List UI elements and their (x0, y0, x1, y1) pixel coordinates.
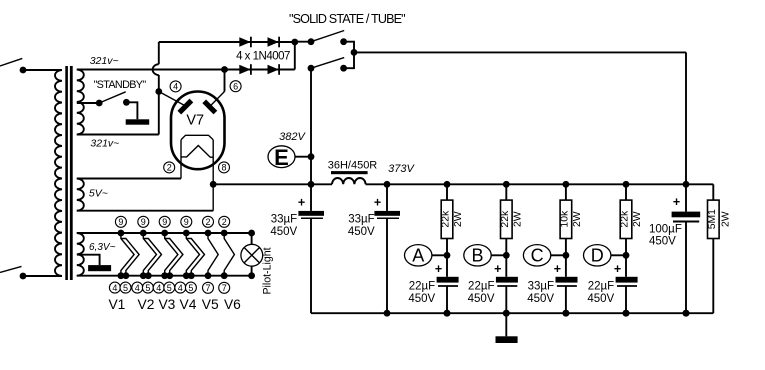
svg-text:V4: V4 (180, 297, 197, 312)
svg-text:2W: 2W (453, 211, 464, 227)
svg-text:2W: 2W (632, 211, 643, 227)
svg-text:5M1: 5M1 (707, 209, 718, 229)
svg-text:+: + (554, 262, 561, 276)
svg-text:"SOLID STATE / TUBE": "SOLID STATE / TUBE" (289, 12, 405, 26)
svg-text:7: 7 (222, 283, 227, 293)
svg-text:2: 2 (167, 163, 172, 173)
svg-text:4: 4 (178, 283, 183, 293)
svg-text:2: 2 (222, 217, 227, 227)
svg-text:4 x 1N4007: 4 x 1N4007 (236, 51, 290, 63)
svg-text:A: A (412, 246, 424, 266)
svg-text:373V: 373V (388, 163, 415, 175)
svg-text:V6: V6 (224, 297, 241, 312)
svg-text:B: B (471, 246, 483, 266)
svg-text:2: 2 (205, 217, 210, 227)
svg-text:100µF: 100µF (649, 223, 682, 235)
svg-text:22k: 22k (620, 210, 631, 228)
svg-text:5: 5 (145, 283, 150, 293)
svg-text:V1: V1 (108, 297, 125, 312)
svg-text:2W: 2W (513, 211, 524, 227)
svg-text:C: C (531, 246, 544, 266)
svg-text:+: + (374, 195, 381, 209)
svg-text:5: 5 (188, 283, 193, 293)
svg-text:321v~: 321v~ (90, 138, 119, 150)
svg-text:22µF: 22µF (409, 281, 435, 293)
svg-text:+: + (298, 195, 305, 209)
svg-text:33µF: 33µF (348, 214, 374, 226)
svg-text:450V: 450V (649, 236, 676, 248)
svg-text:E: E (274, 145, 289, 170)
svg-text:6,3V~: 6,3V~ (89, 242, 116, 253)
svg-text:2W: 2W (721, 211, 732, 227)
svg-text:36H/450R: 36H/450R (328, 159, 378, 171)
svg-text:5: 5 (167, 283, 172, 293)
svg-text:450V: 450V (468, 293, 495, 305)
svg-text:450V: 450V (408, 293, 435, 305)
svg-text:7: 7 (205, 283, 210, 293)
svg-text:V5: V5 (202, 297, 219, 312)
svg-text:33µF: 33µF (528, 281, 554, 293)
svg-text:+: + (494, 262, 501, 276)
svg-text:V2: V2 (138, 297, 155, 312)
svg-text:"STANDBY": "STANDBY" (94, 79, 147, 91)
svg-text:4: 4 (156, 283, 161, 293)
svg-text:D: D (591, 246, 604, 266)
svg-text:9: 9 (141, 217, 146, 227)
svg-text:5: 5 (123, 283, 128, 293)
svg-text:+: + (614, 262, 621, 276)
svg-text:22k: 22k (500, 210, 511, 228)
svg-text:V7: V7 (186, 113, 204, 129)
svg-text:450V: 450V (527, 293, 554, 305)
svg-text:22µF: 22µF (588, 281, 614, 293)
svg-text:+: + (435, 262, 442, 276)
svg-text:2W: 2W (572, 211, 583, 227)
svg-text:9: 9 (162, 217, 167, 227)
svg-text:22k: 22k (441, 210, 452, 228)
svg-text:6: 6 (233, 81, 238, 91)
svg-text:450V: 450V (270, 226, 297, 238)
svg-text:9: 9 (184, 217, 189, 227)
svg-text:22µF: 22µF (468, 281, 494, 293)
svg-text:450V: 450V (348, 226, 375, 238)
svg-text:+: + (673, 195, 680, 209)
svg-text:4: 4 (112, 283, 117, 293)
svg-text:Pilot-Light: Pilot-Light (261, 247, 273, 294)
svg-text:V3: V3 (158, 297, 175, 312)
svg-text:33µF: 33µF (271, 214, 297, 226)
svg-text:5V~: 5V~ (89, 187, 108, 199)
svg-text:10k: 10k (560, 210, 571, 228)
svg-text:9: 9 (118, 217, 123, 227)
svg-text:450V: 450V (587, 293, 614, 305)
svg-text:4: 4 (135, 283, 140, 293)
svg-text:382V: 382V (279, 131, 306, 143)
svg-text:8: 8 (221, 163, 226, 173)
svg-text:321v~: 321v~ (90, 55, 119, 67)
svg-text:4: 4 (173, 82, 178, 92)
